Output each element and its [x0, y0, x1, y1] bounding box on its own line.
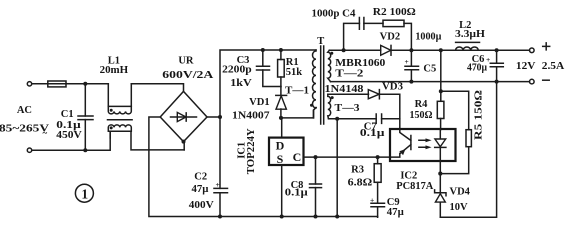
wire: AC live from terminal through fuse to L1 — [32, 83, 108, 85]
svg-text:~: ~ — [42, 128, 47, 138]
svg-text:470µ: 470µ — [467, 62, 487, 73]
wire: bridge plus to DC bus riser — [207, 50, 316, 119]
wire: T-3 bottom / C7 ground side — [329, 117, 377, 219]
capacitor C9 — [370, 182, 385, 217]
node: C1 bottom junction — [83, 148, 87, 152]
wire: secondary ground return to minus rail — [440, 82, 496, 218]
svg-text:600V/2A: 600V/2A — [162, 70, 214, 81]
wire: secondary top rail T-2 to VD2 — [329, 48, 380, 52]
svg-text:VD2: VD2 — [380, 32, 401, 43]
zener diode VD4 — [435, 174, 446, 218]
switching IC block IC1 TOP224Y — [269, 138, 304, 166]
node: C1 top junction — [83, 82, 87, 86]
svg-text:D: D — [276, 139, 285, 153]
output terminal plus — [530, 43, 550, 53]
svg-text:R3: R3 — [351, 164, 364, 175]
AC input terminal bottom — [27, 148, 31, 152]
svg-text:1000p C4: 1000p C4 — [312, 9, 357, 20]
svg-text:R2 100Ω: R2 100Ω — [373, 7, 416, 18]
capacitor C2 bulk — [214, 117, 228, 219]
node: drain junction — [279, 116, 283, 120]
svg-text:1N4148: 1N4148 — [325, 84, 364, 95]
svg-text:1000µ: 1000µ — [415, 32, 441, 43]
svg-text:0.1µ: 0.1µ — [360, 128, 385, 139]
svg-text:PC817A: PC817A — [396, 181, 433, 192]
svg-text:47µ: 47µ — [387, 207, 404, 218]
svg-text:2.5A: 2.5A — [542, 61, 565, 72]
capacitor C6 — [486, 50, 503, 83]
diode VD1 clamp — [276, 87, 287, 118]
wire: VD3 cathode to optocoupler collector — [379, 94, 399, 129]
svg-text:R4: R4 — [415, 99, 429, 110]
svg-text:+: + — [370, 195, 374, 204]
capacitor C5 — [405, 50, 419, 83]
resistor R4 — [437, 91, 444, 130]
svg-text:20mH: 20mH — [100, 65, 129, 76]
svg-text:T—3: T—3 — [335, 103, 360, 114]
wire: L1 bottom to bridge AC2 — [183, 142, 185, 150]
svg-text:TOP224Y: TOP224Y — [246, 128, 257, 174]
transformer secondary winding T-2 — [328, 50, 334, 81]
svg-text:S: S — [277, 152, 284, 166]
svg-text:C: C — [293, 150, 302, 164]
diode VD3 — [368, 90, 379, 99]
wire: C pin control line — [304, 155, 391, 159]
svg-text:C1: C1 — [61, 109, 74, 120]
svg-text:VD4: VD4 — [450, 187, 471, 198]
snubber branch C4 R2 — [344, 18, 412, 51]
svg-text:AC: AC — [17, 105, 32, 116]
wire: secondary return rail — [331, 81, 530, 83]
svg-text:+: + — [405, 57, 409, 66]
svg-text:R5 150Ω: R5 150Ω — [474, 90, 485, 140]
node: R1 tap on DC bus — [279, 48, 283, 52]
svg-text:C2: C2 — [194, 172, 207, 183]
svg-text:+: + — [216, 180, 220, 189]
wire: drain node down to D pin — [281, 118, 283, 137]
resistor R5 — [440, 130, 471, 174]
svg-text:1: 1 — [81, 187, 88, 202]
node: C3 tap on DC bus — [261, 48, 265, 52]
svg-text:51k: 51k — [286, 67, 303, 78]
svg-text:2200p: 2200p — [222, 65, 252, 76]
wire: S pin to ground rail — [280, 165, 284, 219]
svg-text:T—1: T—1 — [285, 86, 309, 97]
svg-text:C5: C5 — [423, 64, 436, 75]
wire: bridge minus to primary ground rail — [149, 117, 378, 217]
figure number 1 — [75, 184, 93, 202]
bridge rectifier UR — [160, 91, 207, 143]
inductor L2 — [456, 42, 480, 50]
svg-text:10V: 10V — [450, 202, 469, 213]
transformer T primary winding T-1 — [310, 50, 316, 118]
svg-text:UR: UR — [178, 55, 194, 66]
svg-text:3.3µH: 3.3µH — [455, 29, 485, 40]
svg-text:12V: 12V — [516, 61, 536, 72]
wire: jog to R5 — [441, 91, 469, 129]
transformer core — [321, 46, 324, 124]
svg-text:400V: 400V — [189, 200, 214, 211]
svg-text:47µ: 47µ — [192, 184, 209, 195]
capacitor C1 — [78, 84, 93, 150]
AC input terminal top — [27, 82, 31, 86]
svg-text:1kV: 1kV — [230, 78, 252, 89]
svg-text:VD1: VD1 — [249, 97, 270, 108]
svg-text:6.8Ω: 6.8Ω — [348, 177, 373, 188]
output terminal minus — [530, 79, 550, 84]
optocoupler IC2 PC817A — [390, 129, 456, 174]
wire: feedback tap riser — [439, 50, 443, 93]
diode VD2 MBR1060 — [381, 45, 391, 55]
svg-text:VD3: VD3 — [382, 82, 403, 93]
svg-text:1N4007: 1N4007 — [232, 110, 270, 121]
capacitor C7 — [376, 114, 400, 123]
svg-text:150Ω: 150Ω — [410, 110, 433, 121]
svg-text:IC2: IC2 — [400, 171, 417, 182]
resistor R3 — [374, 157, 381, 182]
wire: VD2 cathode to output plus rail — [391, 48, 529, 52]
svg-text:0.1µ: 0.1µ — [285, 187, 308, 198]
resistor R1 — [278, 50, 285, 87]
svg-text:T—2: T—2 — [335, 69, 363, 80]
node: LED cathode / R5 / VD4 junction — [438, 172, 442, 176]
wire: AC neutral from terminal to L1 lower winding — [32, 131, 110, 150]
capacitor C3 snubber — [257, 50, 281, 87]
transformer bias winding T-3 — [328, 94, 334, 119]
wire: drain node to transformer primary bottom — [281, 108, 316, 118]
wire: T-3 top to VD3 — [328, 93, 369, 95]
fuse FU — [48, 81, 66, 87]
capacitor C8 — [310, 157, 322, 218]
svg-text:450V: 450V — [56, 130, 82, 141]
wire: L1 top to bridge AC1 — [131, 84, 183, 92]
inductor L1 common-mode choke — [108, 84, 185, 150]
